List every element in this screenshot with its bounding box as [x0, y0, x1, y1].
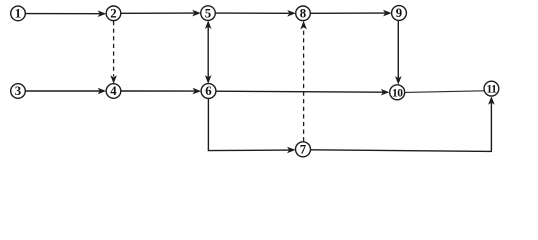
wire 3-4 [25, 88, 106, 95]
svg-text:5: 5 [205, 6, 211, 20]
wire 5-8 [215, 10, 295, 17]
node 6 [201, 84, 216, 99]
svg-text:6: 6 [205, 84, 212, 98]
wire 1-2 [25, 10, 106, 17]
node 7 [296, 142, 311, 157]
svg-text:1: 1 [15, 7, 21, 21]
node 8 [296, 6, 311, 21]
svg-text:10: 10 [392, 87, 403, 99]
svg-text:7: 7 [300, 143, 307, 157]
dashed dummy 7-8 [300, 21, 307, 142]
svg-text:8: 8 [300, 7, 306, 21]
wire 8-9 [310, 10, 391, 17]
wire 6-10 [216, 89, 389, 96]
svg-text:11: 11 [486, 84, 497, 96]
svg-text:9: 9 [396, 6, 402, 20]
node 1 [11, 6, 26, 21]
svg-text:4: 4 [110, 84, 117, 98]
wire 9-10 [395, 21, 402, 85]
node 3 [11, 84, 26, 99]
wire 7-11 [310, 96, 494, 151]
node 5 [201, 6, 216, 21]
node 2 [106, 6, 121, 21]
wire 10-11 [405, 91, 484, 93]
svg-text:3: 3 [15, 84, 21, 98]
svg-text:2: 2 [110, 7, 116, 21]
wire 2-5 [121, 10, 201, 17]
node 9 [392, 6, 407, 21]
dashed dummy 2-4 [110, 21, 117, 84]
double arrow 5-6 [205, 20, 212, 83]
node 10 [390, 85, 405, 100]
wire 4-6 [121, 88, 201, 95]
node 11 [484, 81, 499, 96]
node 4 [106, 84, 121, 99]
wire 6-7 [208, 98, 295, 153]
